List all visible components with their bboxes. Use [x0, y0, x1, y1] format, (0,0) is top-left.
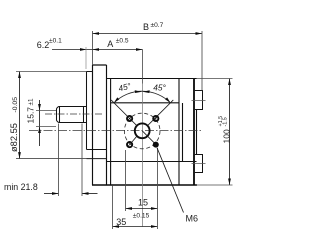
witness pilot top — [16, 71, 87, 73]
45 degree ray left — [111, 100, 136, 125]
M6 leader — [157, 148, 184, 213]
top port tab — [195, 91, 203, 110]
svg-text:6.2: 6.2 — [37, 40, 50, 50]
svg-text:35: 35 — [116, 217, 126, 227]
dim B line — [93, 33, 203, 35]
arrow at pilot face (6.2, outside) — [80, 48, 87, 51]
dim 15.7 — [39, 100, 41, 146]
shaft — [57, 107, 87, 123]
port face square — [107, 103, 197, 162]
pilot cylinder — [87, 72, 107, 150]
svg-text:M6: M6 — [186, 214, 199, 224]
angular dimension arc 45deg — [114, 91, 171, 103]
dim 15 — [126, 208, 158, 210]
dim 100 — [229, 79, 231, 186]
svg-text:±0.5: ±0.5 — [116, 37, 129, 44]
svg-text:45°: 45° — [153, 82, 166, 92]
svg-text:±0.15: ±0.15 — [133, 213, 150, 220]
witness pilot bottom — [16, 158, 87, 160]
port vertical centerline upper dark part — [142, 50, 144, 84]
dim dia 82.55 — [19, 72, 21, 159]
arrow at flange face (A left / 6.2 right) — [93, 48, 100, 51]
bolt hole bottom-left — [127, 142, 132, 147]
port circle — [135, 123, 150, 138]
bottom tab centerline — [192, 163, 206, 165]
witness flange face — [92, 31, 94, 65]
witness left hole column — [125, 150, 127, 211]
port horizontal centerline — [29, 130, 203, 132]
witness port face left edge — [112, 186, 114, 229]
svg-text:±0.1: ±0.1 — [49, 37, 62, 44]
witness body bottom right — [197, 184, 233, 186]
bottom port tab — [195, 155, 203, 173]
svg-text:100: 100 — [222, 129, 232, 143]
dim min 21.8 lines — [44, 193, 59, 195]
bolt hole top-right — [153, 116, 158, 121]
body bottom edge — [92, 184, 197, 186]
mounting flange — [93, 65, 107, 185]
body outline — [107, 79, 197, 186]
svg-text:ø82.55: ø82.55 — [9, 123, 19, 152]
45 degree ray right — [148, 100, 173, 125]
witness rear tab face — [201, 31, 203, 91]
svg-text:15.7: 15.7 — [26, 107, 36, 124]
dim 6.2 / A shared line — [52, 49, 143, 51]
svg-text:-1.5: -1.5 — [222, 117, 228, 126]
witness shaft end — [58, 124, 60, 197]
witness pilot face — [85, 47, 87, 69]
arrow at port centerline (A right) — [136, 48, 143, 51]
arc apex arrow left — [135, 90, 142, 93]
witness key top — [36, 110, 56, 112]
witness key bottom — [36, 126, 56, 128]
arc apex arrow right — [143, 90, 150, 93]
svg-text:min 21.8: min 21.8 — [4, 182, 38, 192]
shaft centerline — [45, 113, 103, 115]
svg-text:±1: ±1 — [28, 98, 35, 105]
port vertical centerline — [142, 84, 144, 227]
arc end arrow left — [114, 97, 119, 102]
bolt circle (dashed) — [124, 113, 160, 149]
witness pilot front — [81, 124, 83, 197]
top tab centerline — [192, 100, 206, 102]
svg-text:±0.7: ±0.7 — [151, 22, 164, 29]
svg-text:15: 15 — [138, 198, 148, 208]
svg-text:A: A — [107, 39, 113, 49]
bolt hole top-left — [127, 116, 132, 121]
ray to bottom-left hole — [131, 136, 137, 143]
svg-text:B: B — [143, 22, 149, 32]
witness body top right — [197, 78, 233, 80]
ray to M6 hole — [142, 131, 154, 143]
svg-text:-0.05: -0.05 — [12, 97, 19, 113]
dim 35 — [113, 226, 158, 228]
arc end arrow right — [165, 97, 170, 102]
witness right hole column — [157, 148, 159, 229]
bolt hole bottom-right M6 (filled) — [153, 142, 159, 148]
rear cover left face (thick) — [193, 79, 195, 186]
